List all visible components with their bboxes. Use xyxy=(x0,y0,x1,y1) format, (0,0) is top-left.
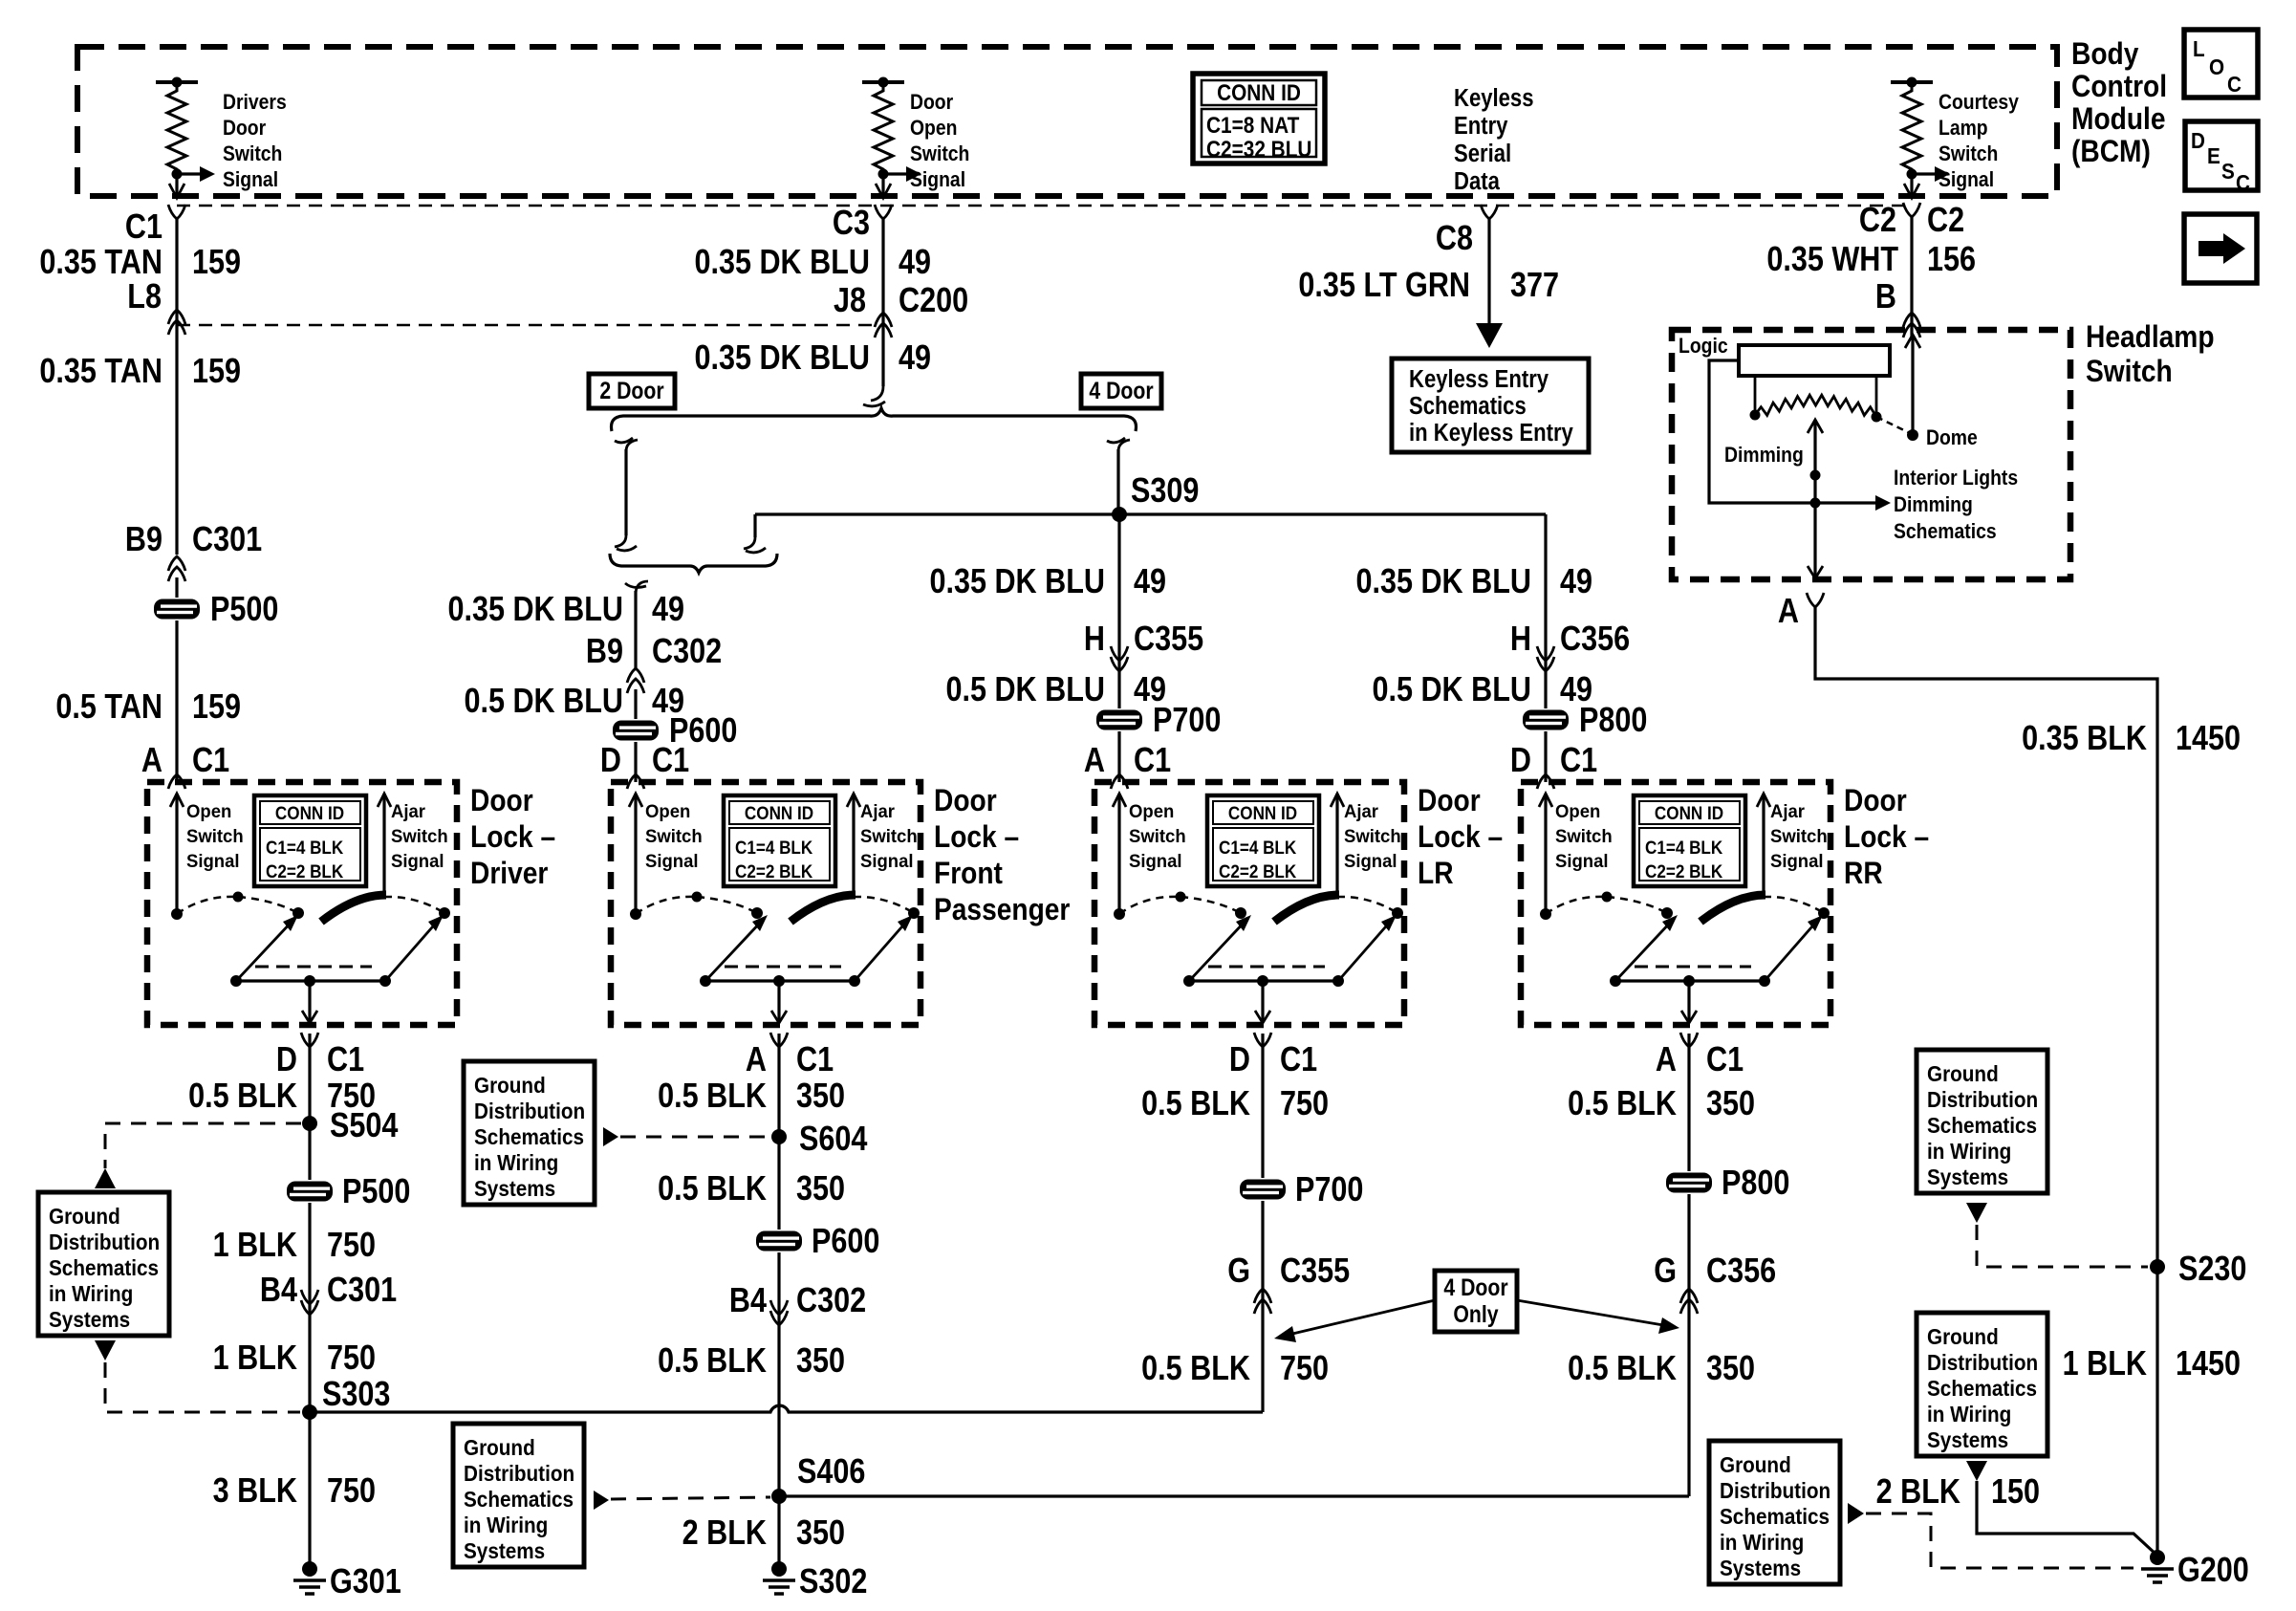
svg-text:in Wiring: in Wiring xyxy=(49,1281,133,1306)
svg-text:Schematics: Schematics xyxy=(1927,1376,2037,1401)
svg-text:Signal: Signal xyxy=(1129,852,1182,873)
svg-text:C1=4 BLK: C1=4 BLK xyxy=(1645,838,1722,858)
RR door connector C1 pin A (below box) xyxy=(1680,1033,1698,1047)
harness option brace (upper) xyxy=(612,408,1137,431)
svg-text:350: 350 xyxy=(796,1514,845,1553)
open switch dashed travel arc xyxy=(177,897,238,914)
grommet P800 xyxy=(1521,708,1570,731)
svg-text:Lock –: Lock – xyxy=(1418,820,1503,854)
svg-text:Dome: Dome xyxy=(1926,426,1978,449)
door lock module box RR xyxy=(1521,782,1830,1025)
reference box ground distribution (S504) xyxy=(38,1192,169,1336)
connector C200 crossing chevrons xyxy=(875,313,892,327)
svg-text:B4: B4 xyxy=(729,1282,767,1320)
wire 0.35 DK BLU 49 to C302 xyxy=(634,591,637,668)
svg-text:G301: G301 xyxy=(330,1563,401,1601)
logic feedback wire xyxy=(1709,360,1875,503)
svg-text:Switch: Switch xyxy=(910,142,969,165)
svg-text:Systems: Systems xyxy=(1927,1165,2008,1189)
svg-text:0.5 BLK: 0.5 BLK xyxy=(1141,1085,1250,1123)
svg-text:G: G xyxy=(1227,1252,1250,1291)
splice S309 xyxy=(1112,507,1127,522)
svg-text:Distribution: Distribution xyxy=(474,1099,585,1123)
svg-text:D: D xyxy=(276,1041,297,1079)
svg-text:C1: C1 xyxy=(125,208,162,247)
svg-text:D: D xyxy=(1510,742,1531,780)
svg-text:Logic: Logic xyxy=(1679,335,1728,358)
svg-text:Ground: Ground xyxy=(1927,1061,1999,1086)
svg-text:0.35 TAN: 0.35 TAN xyxy=(39,244,162,282)
svg-text:C1: C1 xyxy=(1560,742,1597,780)
ajar switch end contact xyxy=(1392,907,1403,919)
wire 0.5 DK BLU 49 into P600 xyxy=(634,689,637,782)
svg-text:1450: 1450 xyxy=(2176,1345,2241,1383)
door switch output wire xyxy=(308,981,311,1022)
svg-text:0.35 TAN: 0.35 TAN xyxy=(39,353,162,391)
svg-text:150: 150 xyxy=(1991,1473,2040,1512)
wire 0.35 DK BLU 49 - S309 to C355 xyxy=(1117,514,1120,782)
door lever left actuator arrow xyxy=(1615,920,1673,981)
band crossing chevrons - drivers wire xyxy=(168,310,185,324)
junction dot lower xyxy=(1810,498,1821,509)
svg-text:Lock –: Lock – xyxy=(934,820,1019,854)
door switch output wire xyxy=(1261,981,1264,1022)
svg-text:Switch: Switch xyxy=(186,827,244,848)
wire S303 ground run with hop over FP wire xyxy=(310,1405,1263,1412)
svg-text:Open: Open xyxy=(645,802,690,823)
svg-text:P500: P500 xyxy=(210,591,278,629)
svg-text:750: 750 xyxy=(327,1339,376,1378)
svg-text:in Wiring: in Wiring xyxy=(474,1150,558,1175)
arrow from reference box toward 2 BLK 150 xyxy=(1848,1503,1864,1524)
svg-text:0.5 DK BLU: 0.5 DK BLU xyxy=(945,671,1105,709)
wiper arrow up xyxy=(1813,420,1816,577)
ajar switch dashed travel arc xyxy=(854,897,914,913)
svg-text:C302: C302 xyxy=(652,633,722,671)
wire 3 BLK 750 to G301 xyxy=(308,1412,311,1563)
ajar switch wire arrow xyxy=(1335,794,1338,896)
svg-text:G200: G200 xyxy=(2177,1552,2249,1590)
open switch dashed travel arc xyxy=(636,897,697,914)
wire 0.35 WHT 156 from BCM C2 to headlamp B xyxy=(1910,217,1913,337)
svg-text:0.5 BLK: 0.5 BLK xyxy=(658,1342,767,1381)
svg-text:C356: C356 xyxy=(1706,1252,1776,1291)
svg-text:G: G xyxy=(1654,1252,1677,1291)
svg-text:S504: S504 xyxy=(330,1107,399,1145)
svg-text:Door: Door xyxy=(223,117,266,140)
connector C3 (BCM) break xyxy=(875,205,892,219)
grommet P800 (lower) xyxy=(1664,1171,1714,1194)
svg-text:Open: Open xyxy=(186,802,231,823)
svg-text:Schematics: Schematics xyxy=(1927,1113,2037,1138)
svg-text:Open: Open xyxy=(1129,802,1174,823)
LOC legend box xyxy=(2184,30,2258,98)
open switch dashed travel arc xyxy=(1546,897,1607,914)
svg-text:J8: J8 xyxy=(834,282,866,320)
svg-text:0.35 DK BLU: 0.35 DK BLU xyxy=(694,339,870,378)
connector C8 (BCM) break xyxy=(1481,205,1498,219)
open switch contact xyxy=(1540,908,1551,920)
svg-text:Switch: Switch xyxy=(645,827,703,848)
svg-text:P700: P700 xyxy=(1295,1171,1363,1209)
svg-text:P600: P600 xyxy=(812,1223,879,1261)
door lever left actuator arrow xyxy=(1189,920,1246,981)
svg-text:0.35 DK BLU: 0.35 DK BLU xyxy=(694,244,870,282)
svg-text:C1: C1 xyxy=(327,1041,364,1079)
ajar switch end contact xyxy=(1818,907,1830,919)
svg-text:C1: C1 xyxy=(1706,1041,1744,1079)
svg-text:Module: Module xyxy=(2071,102,2166,136)
wire end curl at harness split xyxy=(871,386,883,401)
DESC legend box xyxy=(2185,121,2258,190)
dashed wiper link to dome xyxy=(1876,417,1910,433)
reference box Keyless Entry Schematics xyxy=(1392,359,1589,452)
svg-text:CONN ID: CONN ID xyxy=(1228,803,1297,823)
svg-text:1 BLK: 1 BLK xyxy=(2063,1345,2147,1383)
svg-text:C200: C200 xyxy=(899,282,968,320)
svg-text:Systems: Systems xyxy=(1927,1427,2008,1452)
svg-text:159: 159 xyxy=(192,688,241,727)
svg-text:Ground: Ground xyxy=(49,1204,120,1229)
open switch contact xyxy=(630,908,641,920)
LR door connector C1 pin D (below box) xyxy=(1254,1033,1271,1047)
svg-text:Lock –: Lock – xyxy=(1844,820,1929,854)
door lever solid line xyxy=(705,979,855,982)
svg-text:CONN ID: CONN ID xyxy=(275,803,344,823)
svg-text:C2=2 BLK: C2=2 BLK xyxy=(1645,861,1722,882)
svg-text:Lock –: Lock – xyxy=(470,820,555,854)
svg-text:in Keyless Entry: in Keyless Entry xyxy=(1409,419,1573,446)
svg-text:Schematics: Schematics xyxy=(464,1487,574,1512)
splice S230 xyxy=(2150,1259,2165,1274)
open switch wire arrow xyxy=(1117,794,1120,914)
svg-text:Signal: Signal xyxy=(860,852,914,873)
reference box ground distribution (2 BLK 150) xyxy=(1709,1441,1840,1584)
svg-text:156: 156 xyxy=(1927,241,1976,279)
svg-text:CONN ID: CONN ID xyxy=(1655,803,1723,823)
ground G200 xyxy=(2150,1550,2165,1565)
svg-text:A: A xyxy=(141,742,162,780)
svg-text:C3: C3 xyxy=(833,205,870,243)
ajar switch dashed travel arc xyxy=(1764,897,1824,913)
svg-text:0.5 DK BLU: 0.5 DK BLU xyxy=(1372,671,1531,709)
svg-text:Ground: Ground xyxy=(1927,1324,1999,1349)
svg-text:Dimming: Dimming xyxy=(1894,493,1973,516)
svg-text:C1: C1 xyxy=(192,742,229,780)
reference box ground distribution (S230) xyxy=(1917,1050,2047,1193)
svg-text:159: 159 xyxy=(192,244,241,282)
svg-text:Open: Open xyxy=(910,117,957,140)
dome contact xyxy=(1907,429,1918,441)
option box 4 Door xyxy=(1081,374,1161,408)
svg-text:Distribution: Distribution xyxy=(1927,1350,2038,1375)
svg-text:D: D xyxy=(600,742,621,780)
ajar switch dashed travel arc xyxy=(384,897,444,913)
ajar switch wire arrow xyxy=(852,794,855,896)
svg-text:Keyless Entry: Keyless Entry xyxy=(1409,365,1549,393)
svg-text:Distribution: Distribution xyxy=(464,1461,574,1486)
svg-text:C2: C2 xyxy=(1927,202,1964,240)
svg-text:0.5 BLK: 0.5 BLK xyxy=(1568,1350,1677,1388)
svg-text:0.5 DK BLU: 0.5 DK BLU xyxy=(464,683,623,721)
grommet P600 (lower) xyxy=(754,1230,804,1252)
door lever right actuator arrow xyxy=(1765,920,1818,981)
svg-text:Ground: Ground xyxy=(1720,1452,1791,1477)
svg-text:A: A xyxy=(1084,742,1105,780)
front passenger branch start curl xyxy=(636,581,648,593)
svg-text:Signal: Signal xyxy=(645,852,699,873)
headlamp switch box (dashed) xyxy=(1672,330,2070,579)
svg-text:S604: S604 xyxy=(799,1121,868,1159)
svg-text:Front: Front xyxy=(934,857,1003,890)
ajar switch end contact xyxy=(908,907,920,919)
svg-text:RR: RR xyxy=(1844,857,1883,890)
connector C1 (BCM) break xyxy=(168,205,185,219)
driver door connector C1 pin D (below box) xyxy=(301,1033,318,1047)
headlamp connector pin A xyxy=(1807,593,1824,607)
svg-text:(BCM): (BCM) xyxy=(2071,135,2151,168)
grommet P600 xyxy=(611,719,661,742)
svg-text:Signal: Signal xyxy=(910,168,965,191)
potentiometer resistive element xyxy=(1755,395,1876,417)
svg-text:Ground: Ground xyxy=(464,1435,535,1460)
svg-text:in Wiring: in Wiring xyxy=(1720,1530,1804,1555)
ajar switch wire arrow xyxy=(1762,794,1765,896)
svg-text:C302: C302 xyxy=(796,1282,866,1320)
ground S302 xyxy=(771,1561,787,1577)
svg-text:Control: Control xyxy=(2071,70,2167,103)
svg-text:Ajar: Ajar xyxy=(1770,802,1806,823)
svg-text:S406: S406 xyxy=(797,1453,865,1491)
potentiometer stubs xyxy=(1754,376,1757,413)
svg-text:Systems: Systems xyxy=(49,1307,130,1332)
svg-text:Schematics: Schematics xyxy=(474,1124,584,1149)
open switch contact xyxy=(171,908,183,920)
svg-text:0.5 BLK: 0.5 BLK xyxy=(188,1078,297,1116)
door lever right actuator arrow xyxy=(855,920,908,981)
door lever dashed line xyxy=(1635,966,1751,969)
svg-text:Ajar: Ajar xyxy=(1344,802,1379,823)
svg-text:P500: P500 xyxy=(342,1173,410,1211)
wire 0.5 BLK 750 to S504 xyxy=(308,1034,311,1412)
door lock module box Driver xyxy=(147,782,457,1025)
ajar switch wiper (thick arc) xyxy=(791,895,856,922)
svg-text:B9: B9 xyxy=(125,521,162,559)
svg-text:1 BLK: 1 BLK xyxy=(213,1339,297,1378)
svg-text:Switch: Switch xyxy=(1129,827,1186,848)
svg-text:0.5 TAN: 0.5 TAN xyxy=(55,688,162,727)
svg-text:Door: Door xyxy=(910,91,953,114)
door CONN ID table xyxy=(1207,795,1319,886)
logic block xyxy=(1739,345,1890,376)
svg-text:0.5 BLK: 0.5 BLK xyxy=(658,1170,767,1208)
svg-text:Entry: Entry xyxy=(1454,112,1508,140)
wire 2 BLK 150 to G200 xyxy=(1977,1481,2157,1556)
svg-text:Door: Door xyxy=(1844,784,1907,817)
svg-text:0.5 BLK: 0.5 BLK xyxy=(1141,1350,1250,1388)
svg-text:Courtesy: Courtesy xyxy=(1939,91,2019,114)
door switch output wire xyxy=(1687,981,1690,1022)
door lever left actuator arrow xyxy=(236,920,293,981)
svg-text:C2=2 BLK: C2=2 BLK xyxy=(735,861,812,882)
wire 2 BLK 350 to S302 xyxy=(777,1496,780,1563)
svg-text:Switch: Switch xyxy=(1555,827,1613,848)
harness band upper dashed line xyxy=(177,205,1912,207)
svg-text:A: A xyxy=(1656,1041,1677,1079)
open switch contact xyxy=(1114,908,1125,920)
svg-text:Headlamp: Headlamp xyxy=(2086,320,2215,354)
open switch pivot contact xyxy=(751,907,763,919)
open switch mid contact xyxy=(692,892,703,903)
resistor - courtesy lamp switch input xyxy=(1891,80,1933,84)
2 door option stub wire xyxy=(626,440,638,451)
ajar switch wiper (thick arc) xyxy=(1274,895,1339,922)
open switch dashed travel arc xyxy=(1119,897,1180,914)
reference box ground distribution (S604) xyxy=(464,1061,595,1205)
wire 0.35 LT GRN 377 from BCM C8 xyxy=(1487,219,1490,327)
svg-text:C355: C355 xyxy=(1134,620,1203,659)
ajar switch wire arrow xyxy=(382,794,385,896)
arrow to S604 reference xyxy=(603,1127,618,1146)
svg-text:Driver: Driver xyxy=(470,857,549,890)
svg-text:D: D xyxy=(2191,128,2205,153)
door lever dashed line xyxy=(255,966,372,969)
svg-text:A: A xyxy=(746,1041,767,1079)
dashed reference link S504 xyxy=(105,1123,301,1168)
svg-text:H: H xyxy=(1510,620,1531,659)
svg-text:Signal: Signal xyxy=(391,852,444,873)
svg-text:O: O xyxy=(2209,54,2224,79)
open switch wire arrow xyxy=(634,794,637,914)
svg-text:C301: C301 xyxy=(192,521,262,559)
svg-text:in Wiring: in Wiring xyxy=(1927,1402,2011,1426)
arrow to S230 reference xyxy=(1966,1203,1987,1223)
svg-text:Signal: Signal xyxy=(1555,852,1609,873)
svg-text:350: 350 xyxy=(1706,1085,1755,1123)
svg-text:159: 159 xyxy=(192,353,241,391)
door lever dashed line xyxy=(1208,966,1325,969)
svg-text:Switch: Switch xyxy=(223,142,282,165)
4 door only arrow to C356 xyxy=(1517,1300,1663,1325)
wire drop to lower brace from S309 run xyxy=(753,514,756,537)
open switch mid contact xyxy=(1176,892,1186,903)
svg-text:C1=8 NAT: C1=8 NAT xyxy=(1206,111,1299,138)
svg-text:Distribution: Distribution xyxy=(1720,1478,1830,1503)
svg-text:Switch: Switch xyxy=(1939,142,1998,165)
svg-text:Schematics: Schematics xyxy=(1720,1504,1830,1529)
wire 0.35 DK BLU 49 - S309 run to C356 xyxy=(1544,514,1547,782)
svg-text:0.5 BLK: 0.5 BLK xyxy=(658,1078,767,1116)
svg-text:Data: Data xyxy=(1454,167,1500,195)
svg-text:0.35 DK BLU: 0.35 DK BLU xyxy=(929,563,1105,601)
svg-text:P800: P800 xyxy=(1579,702,1647,740)
ajar switch end contact xyxy=(439,907,450,919)
svg-text:Ajar: Ajar xyxy=(391,802,426,823)
svg-text:Door: Door xyxy=(470,784,533,817)
svg-text:0.35 LT GRN: 0.35 LT GRN xyxy=(1298,267,1470,305)
wire 0.35 DK BLU 49 below C200 xyxy=(881,219,884,386)
door CONN ID table xyxy=(724,795,835,886)
svg-text:350: 350 xyxy=(1706,1350,1755,1388)
dashed reference link to G200 xyxy=(1866,1513,2134,1568)
pin B crossing chevrons xyxy=(1903,313,1920,327)
svg-text:S302: S302 xyxy=(799,1563,867,1601)
connector C2 (BCM) break xyxy=(1903,203,1920,217)
resistor - drivers door switch input xyxy=(156,80,198,84)
svg-text:B9: B9 xyxy=(586,633,623,671)
svg-text:Body: Body xyxy=(2071,37,2139,71)
svg-text:Dimming: Dimming xyxy=(1724,444,1804,467)
svg-text:CONN ID: CONN ID xyxy=(1217,78,1301,105)
svg-text:E: E xyxy=(2207,143,2220,168)
svg-text:Switch: Switch xyxy=(1770,827,1828,848)
door lever solid line xyxy=(1615,979,1765,982)
svg-text:49: 49 xyxy=(1134,563,1166,601)
svg-text:49: 49 xyxy=(899,339,931,378)
svg-text:Only: Only xyxy=(1453,1300,1498,1327)
svg-text:49: 49 xyxy=(652,591,684,629)
wire 0.35 BLK 1450 from headlamp A xyxy=(1815,607,2157,1557)
svg-text:C355: C355 xyxy=(1280,1252,1350,1291)
svg-text:3 BLK: 3 BLK xyxy=(213,1472,297,1511)
svg-text:Open: Open xyxy=(1555,802,1600,823)
svg-text:4 Door: 4 Door xyxy=(1089,377,1153,403)
svg-text:Signal: Signal xyxy=(223,168,278,191)
svg-text:S309: S309 xyxy=(1131,472,1199,511)
svg-text:377: 377 xyxy=(1510,267,1559,305)
svg-text:B4: B4 xyxy=(260,1272,297,1310)
svg-text:Schematics: Schematics xyxy=(49,1255,159,1280)
open switch wire arrow xyxy=(175,794,178,914)
svg-text:0.35 BLK: 0.35 BLK xyxy=(2022,720,2147,758)
svg-text:Drivers: Drivers xyxy=(223,91,287,114)
4 door only arrow to C355 xyxy=(1289,1300,1435,1335)
reference box ground distribution (S406) xyxy=(453,1424,584,1567)
svg-text:750: 750 xyxy=(1280,1085,1329,1123)
svg-text:H: H xyxy=(1084,620,1105,659)
svg-text:350: 350 xyxy=(796,1170,845,1208)
svg-text:C1: C1 xyxy=(1280,1041,1317,1079)
arrow to S406 reference xyxy=(594,1491,609,1510)
wire S309 horizontal run xyxy=(755,512,1546,515)
svg-text:L8: L8 xyxy=(127,278,162,316)
wire 0.35 TAN 159 - BCM C1 to C301 xyxy=(175,219,178,555)
svg-text:Systems: Systems xyxy=(474,1176,555,1201)
svg-text:Passenger: Passenger xyxy=(934,893,1071,926)
svg-text:C1=4 BLK: C1=4 BLK xyxy=(266,838,343,858)
door switch output wire xyxy=(777,981,780,1022)
4 door option stub wire xyxy=(1118,440,1130,451)
svg-text:750: 750 xyxy=(1280,1350,1329,1388)
door lock module box LR xyxy=(1094,782,1404,1025)
arrow legend box xyxy=(2184,214,2257,283)
svg-text:L: L xyxy=(2193,36,2205,61)
svg-text:C1: C1 xyxy=(652,742,689,780)
svg-text:C: C xyxy=(2227,72,2242,97)
svg-text:CONN ID: CONN ID xyxy=(745,803,813,823)
svg-text:C1=4 BLK: C1=4 BLK xyxy=(1219,838,1296,858)
svg-text:Schematics: Schematics xyxy=(1894,520,1997,543)
door lever left actuator arrow xyxy=(705,920,763,981)
svg-text:C1=4 BLK: C1=4 BLK xyxy=(735,838,812,858)
svg-text:2 BLK: 2 BLK xyxy=(682,1514,767,1553)
svg-text:0.35 DK BLU: 0.35 DK BLU xyxy=(447,591,623,629)
grommet P500 (lower) xyxy=(285,1180,335,1203)
svg-text:C2: C2 xyxy=(1859,202,1896,240)
svg-text:D: D xyxy=(1229,1041,1250,1079)
svg-text:Signal: Signal xyxy=(1344,852,1397,873)
svg-text:Door: Door xyxy=(1418,784,1481,817)
